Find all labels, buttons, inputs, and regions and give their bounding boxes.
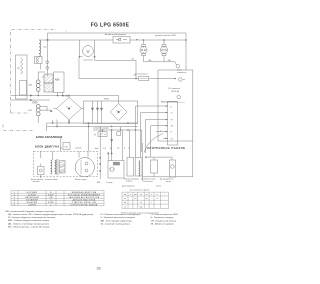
DC terminal plus xyxy=(179,78,183,82)
AVR connector lower xyxy=(44,83,53,92)
wire winding out xyxy=(38,106,52,123)
oil sensor box xyxy=(38,166,44,174)
small box ZG xyxy=(117,132,121,135)
connector pin box xyxy=(168,102,178,146)
spark resistor hatched xyxy=(60,161,66,173)
svg-text:БЛОК ДВИГУНА: БЛОК ДВИГУНА xyxy=(35,145,60,149)
pin 6 xyxy=(163,137,168,139)
wire field winding xyxy=(38,72,45,96)
starter relay box xyxy=(108,161,124,179)
svg-text:ЦЛ: ЦЛ xyxy=(132,58,134,60)
svg-text:заземлення: заземлення xyxy=(177,72,186,74)
node dots rails xyxy=(38,95,39,96)
svg-text:СИНІЙ: СИНІЙ xyxy=(28,203,36,206)
svg-text:сн: сн xyxy=(140,202,142,204)
svg-text:ВМ - автоматичний переривач на: ВМ - автоматичний переривач напруги гене… xyxy=(6,210,56,213)
wire code row xyxy=(95,148,131,150)
svg-text:знг: знг xyxy=(134,194,137,196)
rail risers xyxy=(53,120,58,127)
svg-text:СМ - Конденсатор захисту: СМ - Конденсатор захисту xyxy=(151,220,177,222)
wire L top bus xyxy=(48,32,187,34)
rail nodes xyxy=(52,122,53,123)
svg-text:стартер: стартер xyxy=(75,147,81,149)
svg-text:нет мастила: нет мастила xyxy=(143,181,153,183)
svg-text:ЗК - Котушка збудження електро: ЗК - Котушка збудження електромагніту за… xyxy=(8,216,56,219)
oil sensor rect xyxy=(169,160,175,177)
terminal rings E F xyxy=(33,101,35,103)
pin 1 xyxy=(136,106,168,158)
socket X1 xyxy=(140,40,147,62)
wire neutral return xyxy=(95,57,136,79)
svg-text:діюче керування: діюче керування xyxy=(122,184,135,187)
oil lamp rect xyxy=(151,160,158,173)
DC fuse wire xyxy=(79,57,139,79)
cable curve xyxy=(144,134,163,153)
AVR stubs down xyxy=(58,93,63,96)
solenoid box A xyxy=(127,158,134,177)
svg-text:Стартер: Стартер xyxy=(106,182,113,184)
svg-text:БЛОК ЗАПАЛЕННЯ: БЛОК ЗАПАЛЕННЯ xyxy=(36,135,62,139)
svg-text:Мотор стартер: Мотор стартер xyxy=(75,179,87,181)
solenoid box B xyxy=(135,158,142,177)
svg-text:ЗнГ: ЗнГ xyxy=(103,148,106,150)
pin 2 xyxy=(141,113,168,158)
wiring table left xyxy=(11,191,104,206)
panel right border xyxy=(142,141,192,177)
svg-text:ЗЧ - (стартер) стартер двигуна: ЗЧ - (стартер) стартер двигуна xyxy=(101,224,131,226)
table left text xyxy=(14,191,101,207)
node X1 xyxy=(143,39,144,40)
svg-text:ЧД - блокова лампа 12В - Обмот: ЧД - блокова лампа 12В - Обмотка зарядки… xyxy=(8,213,94,216)
svg-text:V: V xyxy=(86,49,89,54)
svg-text:КМ - Обмотка датчика - Строка: КМ - Обмотка датчика - Строка 2В котушки xyxy=(8,227,50,229)
svg-text:випрямляч зарядки: випрямляч зарядки xyxy=(94,128,109,130)
bridge rectifier M2A50 xyxy=(57,98,82,120)
panel bus wire xyxy=(146,156,172,158)
wire sensor top xyxy=(171,157,173,160)
relay lamp xyxy=(110,167,114,171)
wire N bus xyxy=(42,39,186,41)
svg-text:ЗКЗМ: ЗКЗМ xyxy=(104,98,110,100)
svg-text:DC терминал: DC терминал xyxy=(168,88,180,90)
circuit breaker CB xyxy=(113,37,130,44)
ignition coil transformer xyxy=(51,159,59,175)
svg-text:ПЗ: ПЗ xyxy=(117,148,119,150)
svg-text:масла: масла xyxy=(166,181,171,183)
diode on wire xyxy=(111,140,113,142)
socket X2 xyxy=(160,40,167,62)
legend right col B xyxy=(151,214,179,226)
bridge rectifier 2 xyxy=(110,104,127,121)
terminal ring A xyxy=(46,61,49,64)
diode 3 xyxy=(100,101,102,124)
engine wires down xyxy=(53,138,89,160)
terminal ring B xyxy=(46,66,49,69)
svg-text:ПЗ: ПЗ xyxy=(171,138,173,140)
voltmeter taps xyxy=(80,40,95,57)
svg-text:мастила: мастила xyxy=(33,181,40,183)
node at 47.5,40 xyxy=(47,39,49,41)
svg-text:ПЗ: ПЗ xyxy=(94,135,96,137)
svg-text:АВК: АВК xyxy=(55,79,60,82)
svg-text:КОНТРОЛЬНА ПАНЕЛЬ: КОНТРОЛЬНА ПАНЕЛЬ xyxy=(147,147,185,150)
charge regulator box xyxy=(98,132,107,137)
svg-text:ВМК - Обмотка збудження високо: ВМК - Обмотка збудження високої напруги xyxy=(8,220,50,222)
engine block dashed border xyxy=(34,151,98,177)
arrow terminal C xyxy=(30,95,32,97)
wire from boundary to terminals xyxy=(11,96,30,101)
svg-text:1: 1 xyxy=(66,31,67,33)
svg-text:ЗВ - Вимикання двигуна: ЗВ - Вимикання двигуна xyxy=(151,224,175,226)
sense wire to AVR xyxy=(47,40,49,76)
svg-text:5: 5 xyxy=(160,130,161,132)
DC fuse xyxy=(139,76,149,80)
svg-text:з'єднань: з'єднань xyxy=(126,181,133,183)
charge rectifier box ZKZM xyxy=(84,101,138,124)
svg-text:вольтметр: вольтметр xyxy=(83,60,93,62)
stator main winding Sho xyxy=(39,40,41,57)
svg-text:ДМ - Обмотка стабілізації напр: ДМ - Обмотка стабілізації напруги датчик… xyxy=(8,222,50,225)
node arrow xyxy=(137,39,139,40)
AVR connector upper xyxy=(44,74,53,83)
svg-text:ЗСН: ЗСН xyxy=(28,110,33,112)
svg-text:Замб: Замб xyxy=(95,148,99,150)
pin 5 xyxy=(156,131,168,133)
svg-text:12В 8,3А: 12В 8,3А xyxy=(171,90,180,93)
relay stub xyxy=(102,130,104,132)
svg-text:бч: бч xyxy=(134,198,136,200)
exciter sub-box xyxy=(20,81,27,96)
panel wire left xyxy=(141,143,143,181)
relay contact dark xyxy=(113,162,119,165)
DC bus rails xyxy=(47,123,138,127)
diode 1 xyxy=(91,101,93,124)
wire stator to bus xyxy=(39,33,48,40)
AVR box xyxy=(54,72,65,93)
wire right drop xyxy=(185,33,187,40)
dash-dot generator boundary xyxy=(11,30,57,114)
svg-text:DC Запобіжник: DC Запобіжник xyxy=(135,73,148,76)
svg-text:до мережі змінного 230В: до мережі змінного 230В xyxy=(155,34,176,37)
svg-text:ор: ор xyxy=(124,202,126,204)
field winding ShV xyxy=(36,80,40,84)
wire to bridge2 top xyxy=(118,96,120,104)
svg-text:пз: пз xyxy=(146,194,148,196)
control unit box xyxy=(158,70,193,141)
svg-text:масла: масла xyxy=(156,185,161,187)
svg-text:КОНТРОЛЬНА ЛАМПА: КОНТРОЛЬНА ЛАМПА xyxy=(71,203,98,206)
svg-text:28: 28 xyxy=(97,266,101,270)
svg-text:чз: чз xyxy=(140,194,142,196)
pin 4 xyxy=(151,126,168,157)
svg-text:зн: зн xyxy=(124,198,126,200)
svg-text:ГЗ - Розетка живлення 230В: ГЗ - Розетка живлення 230В xyxy=(151,214,179,216)
wire terminals on xyxy=(32,96,118,101)
svg-text:Ч - Заземлення корпусу: Ч - Заземлення корпусу xyxy=(151,217,175,219)
svg-text:FG LPG 6500E: FG LPG 6500E xyxy=(91,23,130,29)
arrow terminal D xyxy=(30,99,32,101)
svg-text:б: б xyxy=(157,194,158,196)
svg-text:Знак позначення дротів: Знак позначення дротів xyxy=(130,188,150,191)
svg-text:ВАТ - Блок зарядки акумулятора: ВАТ - Блок зарядки акумулятора xyxy=(101,219,133,222)
svg-text:Автоматичний переривач: Автоматичний переривач xyxy=(105,33,126,36)
dash-dot engine boundary corner xyxy=(3,125,33,131)
terminal box xyxy=(35,57,43,64)
svg-text:Запальна свічка: Запальна свічка xyxy=(45,178,58,181)
svg-text:а: а xyxy=(130,194,131,196)
legend right col A xyxy=(101,213,142,226)
wire box down xyxy=(39,64,41,70)
DC terminal minus xyxy=(177,95,181,99)
svg-text:Х - Керамічні запалювання коту: Х - Керамічні запалювання котушки xyxy=(101,216,136,219)
solenoid coil xyxy=(139,161,140,177)
pin 3 xyxy=(146,120,168,154)
charging winding ZSN xyxy=(36,104,40,108)
terminal circles xyxy=(36,57,38,59)
relay feed stub xyxy=(107,152,109,161)
wire fuse to terminal xyxy=(149,78,176,80)
svg-text:ЗнГ: ЗнГ xyxy=(171,126,174,128)
bridge connections xyxy=(54,96,84,124)
voltmeter V xyxy=(83,46,94,57)
ground terminal xyxy=(176,64,180,68)
ignition bus xyxy=(93,129,142,131)
node X2 xyxy=(163,39,164,40)
ignition verticals xyxy=(112,130,142,161)
svg-text:Ч: Ч xyxy=(124,148,125,150)
rail drops xyxy=(47,123,101,151)
box SV xyxy=(63,143,70,150)
diode 2 xyxy=(96,101,98,124)
table right text xyxy=(124,194,165,208)
starter relay wires xyxy=(100,130,111,179)
svg-text:С: С xyxy=(50,204,52,206)
exciter box xyxy=(16,55,28,99)
svg-text:ч: ч xyxy=(151,194,152,196)
exciter zigzag winding xyxy=(21,58,24,74)
wire bus into pins xyxy=(121,40,187,130)
socket ground bus xyxy=(144,62,177,65)
svg-text:ГЗ: ГЗ xyxy=(171,113,173,115)
svg-text:Ш - Обмотка запалювання свічки: Ш - Обмотка запалювання свічки двигуна xyxy=(101,213,142,216)
starter motor circle xyxy=(75,158,94,177)
wiring table right xyxy=(122,192,169,208)
svg-text:зч: зч xyxy=(146,198,148,200)
svg-text:чпб: чпб xyxy=(139,206,142,208)
